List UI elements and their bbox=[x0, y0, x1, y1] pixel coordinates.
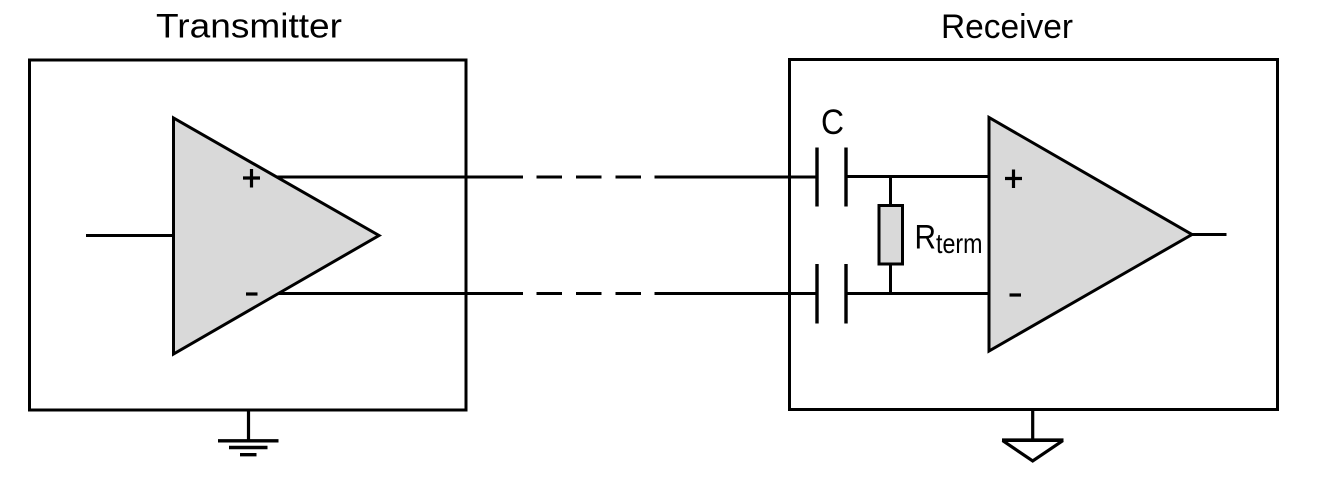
wire: + line solid segment (transmitter to gap) bbox=[277, 176, 523, 179]
svg-text:term: term bbox=[936, 228, 983, 259]
capacitor C bottom: right plate bbox=[844, 264, 847, 324]
svg-text:R: R bbox=[915, 219, 937, 257]
wire: + line solid segment (gap to capacitor) bbox=[655, 176, 816, 179]
label - (transmitter output) bbox=[246, 292, 258, 295]
wire: transmitter input bbox=[86, 234, 175, 237]
ground (receiver chassis ground) bbox=[1002, 409, 1064, 461]
resistor Rterm bbox=[879, 206, 903, 265]
wire: Rterm lower lead bbox=[889, 264, 892, 294]
svg-text:Receiver: Receiver bbox=[941, 8, 1073, 46]
wire: + line dashed segment bbox=[537, 176, 642, 179]
wire: - line dashed segment bbox=[537, 292, 642, 295]
wire: - line solid segment (transmitter to gap) bbox=[278, 292, 523, 295]
wire: receiver output bbox=[1192, 233, 1227, 236]
capacitor C bottom: left plate bbox=[815, 264, 818, 324]
op-amp U1 transmitter driver bbox=[174, 118, 380, 354]
svg-text:Transmitter: Transmitter bbox=[156, 8, 342, 46]
label + (transmitter output) bbox=[243, 169, 260, 188]
label - (receiver input) bbox=[1010, 293, 1022, 296]
svg-text:C: C bbox=[821, 102, 844, 142]
ground (transmitter signal ground) bbox=[218, 410, 279, 455]
receiver box bbox=[790, 60, 1278, 410]
wire: Rterm upper lead bbox=[889, 177, 892, 207]
wire: top capacitor to receiver op-amp bbox=[846, 175, 989, 178]
label + (receiver input) bbox=[1005, 170, 1022, 189]
transmitter box bbox=[30, 60, 467, 410]
capacitor C top: right plate bbox=[844, 148, 847, 207]
wire: bottom capacitor to receiver op-amp bbox=[846, 292, 989, 295]
op-amp U2 receiver bbox=[989, 118, 1192, 352]
wire: - line solid segment (gap to capacitor) bbox=[655, 292, 816, 295]
capacitor C top: left plate bbox=[815, 148, 818, 207]
